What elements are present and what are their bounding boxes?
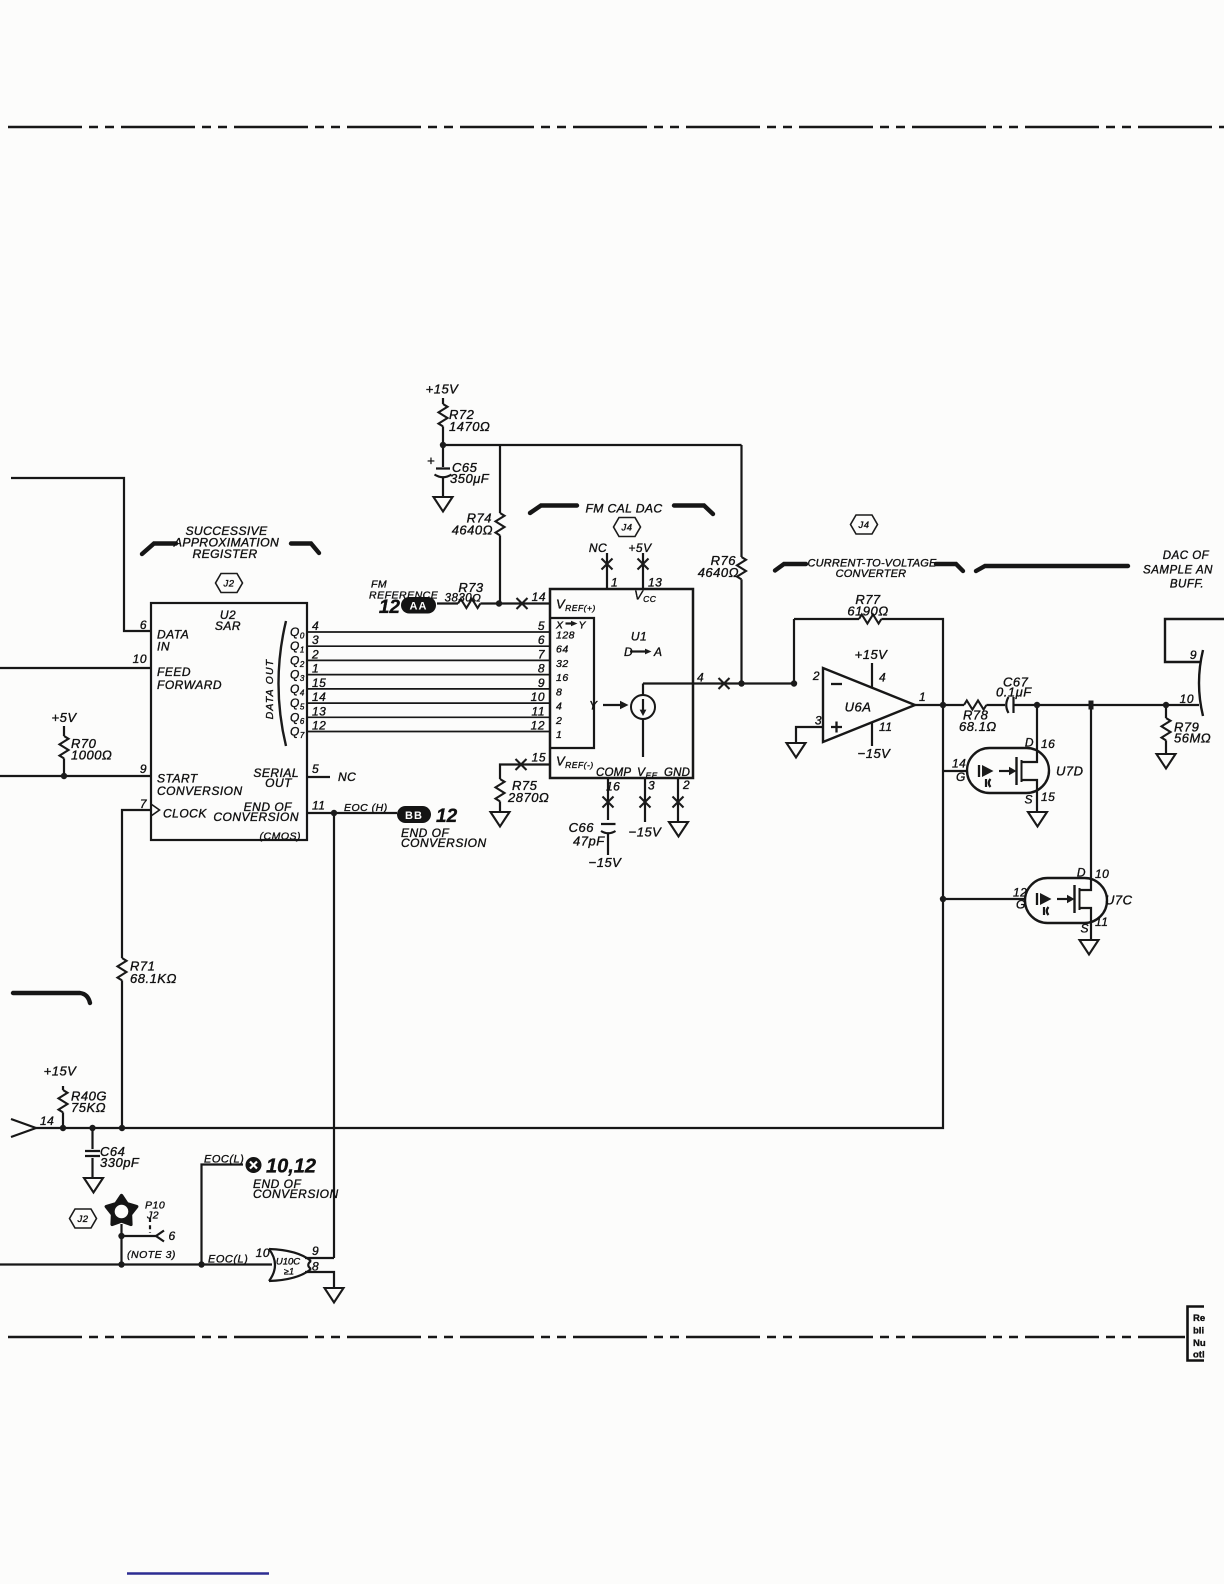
svg-text:NC: NC xyxy=(338,770,356,784)
svg-text:VREF(+): VREF(+) xyxy=(556,597,596,614)
svg-text:EOC (H): EOC (H) xyxy=(344,802,388,814)
svg-text:+5V: +5V xyxy=(52,710,78,725)
svg-text:Q7: Q7 xyxy=(290,725,305,741)
svg-text:13: 13 xyxy=(648,576,662,590)
svg-text:U6A: U6A xyxy=(845,700,872,715)
svg-text:+15V: +15V xyxy=(44,1064,78,1079)
svg-text:FM CAL DAC: FM CAL DAC xyxy=(585,502,662,516)
svg-text:9: 9 xyxy=(1190,648,1197,662)
svg-text:4: 4 xyxy=(312,619,319,633)
svg-text:AA: AA xyxy=(410,601,428,613)
svg-text:14: 14 xyxy=(312,690,326,704)
svg-text:(NOTE 3): (NOTE 3) xyxy=(127,1249,176,1261)
svg-text:VREF(-): VREF(-) xyxy=(556,754,594,771)
svg-text:10: 10 xyxy=(1095,867,1109,881)
svg-text:2: 2 xyxy=(812,669,820,683)
svg-text:14: 14 xyxy=(532,590,546,604)
svg-text:4640Ω: 4640Ω xyxy=(452,523,493,538)
svg-text:BUFF.: BUFF. xyxy=(1170,579,1204,591)
svg-text:U7D: U7D xyxy=(1056,764,1084,779)
svg-text:bli: bli xyxy=(1193,1326,1204,1337)
svg-text:7: 7 xyxy=(538,647,546,661)
svg-text:2870Ω: 2870Ω xyxy=(507,790,549,805)
svg-text:+15V: +15V xyxy=(426,382,460,397)
svg-text:Y: Y xyxy=(579,620,587,632)
svg-text:9: 9 xyxy=(140,762,147,776)
svg-text:CONVERSION: CONVERSION xyxy=(253,1187,339,1201)
svg-text:1: 1 xyxy=(556,729,562,741)
svg-text:S: S xyxy=(1024,793,1033,807)
svg-text:J2: J2 xyxy=(146,1210,159,1222)
svg-text:14: 14 xyxy=(40,1114,54,1128)
svg-text:13: 13 xyxy=(312,704,326,718)
svg-text:4640Ω: 4640Ω xyxy=(698,565,739,580)
svg-text:8: 8 xyxy=(312,1260,319,1274)
svg-text:6: 6 xyxy=(169,1229,176,1243)
svg-text:10: 10 xyxy=(1180,692,1194,706)
svg-text:12: 12 xyxy=(531,719,545,733)
svg-text:3: 3 xyxy=(312,633,319,647)
svg-text:Q6: Q6 xyxy=(290,710,305,726)
svg-text:16: 16 xyxy=(1041,737,1055,751)
svg-text:S: S xyxy=(1080,922,1089,936)
svg-text:1: 1 xyxy=(611,576,618,590)
svg-text:10: 10 xyxy=(133,652,147,666)
svg-text:330pF: 330pF xyxy=(100,1155,140,1170)
svg-text:J2: J2 xyxy=(222,579,234,590)
svg-text:16: 16 xyxy=(606,780,620,794)
svg-text:0.1μF: 0.1μF xyxy=(996,685,1032,700)
svg-text:+5V: +5V xyxy=(628,541,652,555)
svg-text:OUT: OUT xyxy=(265,776,293,790)
svg-text:5: 5 xyxy=(538,619,545,633)
svg-text:DATA OUT: DATA OUT xyxy=(264,658,276,719)
svg-text:+15V: +15V xyxy=(855,647,889,662)
svg-text:Q5: Q5 xyxy=(290,696,305,712)
svg-text:15: 15 xyxy=(1041,790,1055,804)
svg-text:SAMPLE AN: SAMPLE AN xyxy=(1143,565,1213,577)
svg-text:6: 6 xyxy=(140,618,147,632)
svg-text:D: D xyxy=(1025,736,1034,750)
svg-text:BB: BB xyxy=(405,810,423,822)
svg-text:1470Ω: 1470Ω xyxy=(449,419,490,434)
svg-text:Q1: Q1 xyxy=(290,639,305,655)
svg-text:+: + xyxy=(427,453,435,468)
svg-text:8: 8 xyxy=(556,686,562,698)
svg-text:D: D xyxy=(1077,866,1086,880)
svg-text:J2: J2 xyxy=(76,1214,88,1225)
svg-text:6190Ω: 6190Ω xyxy=(847,604,888,619)
svg-text:Q4: Q4 xyxy=(290,682,305,698)
svg-text:FEED: FEED xyxy=(157,665,191,679)
svg-text:12: 12 xyxy=(436,806,458,827)
svg-text:DAC OF: DAC OF xyxy=(1163,550,1210,562)
svg-text:11: 11 xyxy=(879,720,892,734)
svg-text:EOC(L): EOC(L) xyxy=(204,1154,244,1166)
svg-text:32: 32 xyxy=(556,658,569,670)
svg-text:G: G xyxy=(956,770,966,784)
svg-text:CONVERSION: CONVERSION xyxy=(213,810,299,824)
svg-text:10: 10 xyxy=(531,690,545,704)
svg-text:CONVERSION: CONVERSION xyxy=(401,836,487,850)
svg-text:Nu: Nu xyxy=(1193,1338,1206,1349)
svg-text:4: 4 xyxy=(556,701,562,713)
svg-text:(CMOS): (CMOS) xyxy=(260,831,302,843)
svg-text:EOC(L): EOC(L) xyxy=(208,1254,248,1266)
svg-text:1: 1 xyxy=(312,662,319,676)
svg-text:J4: J4 xyxy=(857,520,869,531)
svg-text:Q2: Q2 xyxy=(290,653,305,669)
svg-text:2: 2 xyxy=(311,647,319,661)
svg-text:CONVERSION: CONVERSION xyxy=(157,784,243,798)
svg-text:128: 128 xyxy=(556,630,575,642)
svg-text:D: D xyxy=(624,645,633,659)
svg-text:1000Ω: 1000Ω xyxy=(71,748,112,763)
svg-text:15: 15 xyxy=(312,676,326,690)
svg-text:11: 11 xyxy=(532,704,545,718)
svg-text:9: 9 xyxy=(312,1244,319,1258)
svg-text:Y: Y xyxy=(589,699,598,713)
svg-text:REGISTER: REGISTER xyxy=(192,547,257,561)
svg-text:Re: Re xyxy=(1193,1313,1205,1324)
svg-text:8: 8 xyxy=(538,662,545,676)
svg-text:IN: IN xyxy=(157,640,170,654)
svg-text:−15V: −15V xyxy=(858,746,892,761)
svg-text:3830Ω: 3830Ω xyxy=(445,593,482,605)
svg-text:otl: otl xyxy=(1193,1350,1205,1361)
svg-text:7: 7 xyxy=(140,797,148,811)
svg-text:4: 4 xyxy=(697,671,704,685)
svg-text:Q0: Q0 xyxy=(290,625,305,641)
svg-text:SAR: SAR xyxy=(215,619,241,633)
svg-text:11: 11 xyxy=(312,799,325,813)
svg-text:2: 2 xyxy=(682,778,690,792)
svg-text:75KΩ: 75KΩ xyxy=(71,1100,106,1115)
svg-text:FORWARD: FORWARD xyxy=(157,678,222,692)
svg-text:11: 11 xyxy=(1095,915,1108,929)
svg-text:NC: NC xyxy=(589,541,607,555)
svg-text:2: 2 xyxy=(555,715,562,727)
svg-text:4: 4 xyxy=(879,671,886,685)
svg-text:G: G xyxy=(1016,898,1026,912)
svg-text:68.1Ω: 68.1Ω xyxy=(959,719,997,734)
svg-text:CONVERTER: CONVERTER xyxy=(836,568,907,580)
svg-text:5: 5 xyxy=(312,762,319,776)
svg-text:10,12: 10,12 xyxy=(266,1156,316,1178)
svg-text:12: 12 xyxy=(379,597,401,618)
svg-text:68.1KΩ: 68.1KΩ xyxy=(130,971,177,986)
svg-text:−15V: −15V xyxy=(589,855,623,870)
svg-text:A: A xyxy=(653,645,663,659)
svg-text:15: 15 xyxy=(532,751,546,765)
svg-text:56MΩ: 56MΩ xyxy=(1174,731,1211,746)
svg-text:1: 1 xyxy=(919,690,926,704)
svg-text:14: 14 xyxy=(952,757,966,771)
svg-text:3: 3 xyxy=(648,779,655,793)
svg-text:J4: J4 xyxy=(620,523,632,534)
svg-text:U1: U1 xyxy=(631,630,647,644)
svg-text:3: 3 xyxy=(815,714,822,728)
svg-text:6: 6 xyxy=(538,633,545,647)
svg-text:9: 9 xyxy=(538,676,545,690)
svg-text:16: 16 xyxy=(556,672,569,684)
svg-text:−15V: −15V xyxy=(629,825,663,840)
svg-text:U7C: U7C xyxy=(1105,893,1133,908)
svg-text:12: 12 xyxy=(312,719,326,733)
svg-text:COMP: COMP xyxy=(596,767,631,779)
svg-text:350μF: 350μF xyxy=(450,471,490,486)
svg-text:64: 64 xyxy=(556,644,569,656)
svg-text:Q3: Q3 xyxy=(290,668,305,684)
svg-text:≥1: ≥1 xyxy=(284,1267,294,1277)
svg-text:10: 10 xyxy=(256,1246,270,1260)
svg-text:CLOCK: CLOCK xyxy=(163,807,207,821)
svg-text:47pF: 47pF xyxy=(573,834,605,849)
